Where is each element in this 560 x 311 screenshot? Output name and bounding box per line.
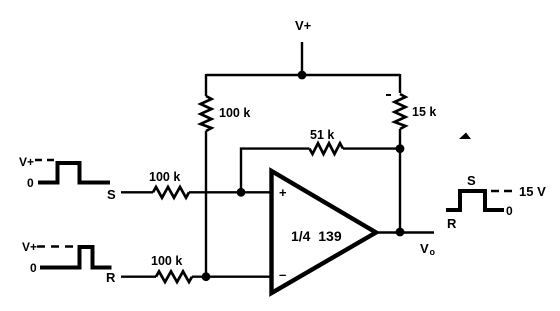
svg-text:0: 0	[30, 261, 37, 275]
S input waveform 0 label	[27, 176, 34, 190]
node: output junction	[396, 228, 405, 237]
svg-text:R: R	[106, 270, 116, 285]
wire: left branch upper	[205, 74, 207, 96]
resistor 100 k (R input)	[151, 254, 192, 282]
wire: V+ supply stub	[301, 42, 303, 75]
svg-text:V: V	[420, 241, 429, 256]
svg-text:V+: V+	[19, 155, 34, 169]
svg-text:S: S	[467, 173, 476, 188]
svg-text:100 k: 100 k	[219, 106, 250, 120]
output waveform 15V dashed level	[491, 190, 517, 192]
wire: left branch lower (to minus node)	[205, 131, 207, 277]
output waveform 15 V label	[519, 184, 546, 199]
svg-text:1/4 139: 1/4 139	[291, 228, 342, 244]
S input waveform V+ level label	[19, 155, 34, 169]
op-amp U1 1/4 139	[272, 171, 377, 293]
resistor 51 k (feedback)	[310, 128, 401, 154]
R input waveform pulse	[40, 247, 112, 268]
wire: R input lead	[121, 276, 156, 278]
node R label	[106, 270, 116, 285]
wire: S line to op-amp plus input	[189, 191, 272, 193]
svg-text:+: +	[279, 185, 287, 200]
wire: S input lead	[121, 191, 153, 193]
svg-text:15 V: 15 V	[519, 184, 546, 199]
node: plus input junction	[237, 188, 246, 197]
R input waveform V+ level label	[22, 240, 37, 254]
output waveform R label	[447, 216, 457, 231]
node: V+ rail junction	[298, 71, 307, 80]
R input waveform V+ dashed level	[37, 245, 78, 247]
svg-text:–: –	[279, 267, 286, 282]
output waveform pulse	[446, 191, 504, 210]
svg-text:100 k: 100 k	[149, 170, 180, 184]
node: 51k/15k junction	[396, 144, 405, 153]
output waveform 0 label	[506, 204, 513, 218]
wire: right branch lower (15k to output node)	[399, 129, 401, 232]
resistor 100 k pull-up (vertical)	[201, 96, 251, 131]
resistor 100 k (S input)	[149, 170, 189, 198]
node Vo label	[420, 241, 436, 257]
wire: output lead	[378, 231, 434, 233]
svg-text:o: o	[430, 247, 436, 257]
arrow marker	[459, 133, 471, 140]
wire: top rail	[206, 74, 400, 77]
svg-text:0: 0	[506, 204, 513, 218]
svg-text:0: 0	[27, 176, 34, 190]
node S label	[107, 187, 116, 202]
svg-text:15 k: 15 k	[412, 105, 436, 119]
wire: R line to op-amp minus input	[192, 276, 272, 278]
resistor 15 k (vertical)	[386, 94, 436, 129]
svg-text:S: S	[107, 187, 116, 202]
node: minus input junction	[202, 272, 211, 281]
output waveform S label	[467, 173, 476, 188]
wire: feedback left segment and drop to plus node	[241, 149, 310, 192]
S input waveform pulse	[38, 163, 110, 183]
svg-text:V+: V+	[22, 240, 37, 254]
node V+ label	[295, 18, 312, 33]
svg-text:R: R	[447, 216, 457, 231]
svg-text:100 k: 100 k	[151, 254, 182, 268]
R input waveform 0 label	[30, 261, 37, 275]
svg-text:51 k: 51 k	[310, 128, 334, 142]
svg-text:V+: V+	[295, 18, 312, 33]
S input waveform V+ dashed level	[35, 159, 56, 161]
wire: right branch upper	[399, 74, 401, 93]
